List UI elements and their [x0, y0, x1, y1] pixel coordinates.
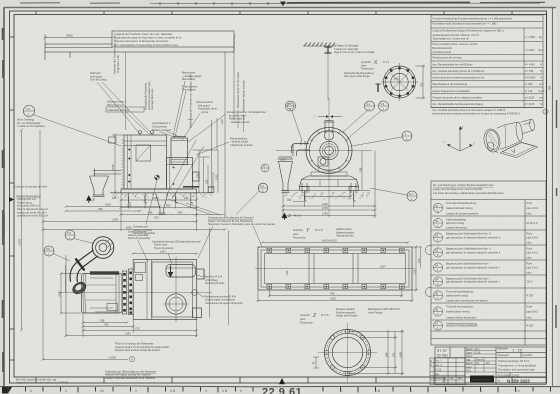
elbow bottom flange (dark) — [71, 280, 88, 296]
dims below frame — [257, 289, 414, 302]
bolt dots — [128, 149, 174, 185]
middle column small rows — [465, 351, 496, 373]
table text german/english/spanish rows — [433, 17, 512, 107]
discharge stub right — [193, 172, 200, 181]
small balloon 11 — [261, 164, 269, 172]
dims below plan view — [65, 255, 199, 337]
top margin ruler — [150, 2, 540, 4]
scan paper edge left — [3, 7, 5, 387]
small box on left wall — [109, 137, 117, 143]
dims below side view — [42, 193, 227, 360]
logo box — [470, 376, 494, 383]
revision strip left — [430, 358, 465, 385]
connection table mid right — [431, 181, 546, 345]
left feed pipe from casing — [292, 141, 310, 156]
balloon 5.1 left — [286, 101, 296, 111]
bold feed arrow — [169, 266, 173, 277]
flange bolt holes — [324, 329, 371, 376]
vertical leader from bar to hoist point — [125, 52, 127, 130]
balloon 5.4/2 right of side view — [258, 183, 268, 193]
balloons left of table — [425, 245, 431, 254]
long vertical leader x=225 — [224, 52, 226, 218]
shading on drum — [488, 132, 498, 146]
scan edge smudges left — [2, 28, 4, 372]
housing plan — [133, 260, 204, 320]
coordinate axes symbol — [447, 128, 473, 151]
bottom-left corner blob — [2, 387, 12, 394]
crane beam top bar — [45, 44, 234, 60]
flange bolts (dark) — [385, 67, 415, 98]
dims right of flange — [348, 330, 405, 376]
bottom scan edge line — [0, 385, 560, 388]
frame grid ticks bottom — [36, 377, 512, 383]
motor top right — [521, 119, 531, 122]
connection table rows with balloons 51-57 — [433, 203, 442, 212]
approx 6750 dim — [42, 358, 129, 360]
fins left — [121, 140, 124, 188]
TITLE BLOCK — [435, 347, 546, 385]
dim 1041 above housing — [132, 252, 198, 254]
skid base — [500, 143, 538, 158]
balloons top right pair — [365, 101, 375, 111]
bottom ruler ticks — [8, 387, 551, 393]
anchor bolts side view — [129, 193, 193, 204]
frame grid ticks left/right — [10, 37, 15, 360]
circled 1 right — [543, 109, 548, 114]
foundation data table top right — [431, 15, 543, 108]
I-beam for assembly — [325, 47, 332, 53]
top neck and bearing — [324, 121, 335, 141]
foundation hatch under front view — [281, 190, 370, 192]
flange view X — [381, 63, 418, 101]
Z arrow bottom — [282, 214, 286, 221]
leader diagonals — [166, 81, 229, 199]
note box on beam — [112, 31, 234, 47]
left vertical dims side view — [20, 129, 124, 332]
inlet pipe elbow (bold) — [70, 237, 114, 283]
small dim left — [313, 357, 319, 368]
dim above 8x150 — [261, 241, 410, 243]
right stubs — [197, 269, 204, 279]
rows below table bottom (2 extra) — [431, 107, 543, 109]
body cylinder — [497, 122, 519, 128]
concrete speckle band front view — [285, 192, 369, 200]
isometric sketch of centrifuge — [482, 119, 538, 158]
centerlines — [328, 98, 330, 217]
right dim line of flange — [416, 65, 426, 100]
baseplate — [121, 189, 197, 193]
date stamp bold bottom — [279, 378, 285, 384]
table value column — [525, 35, 545, 106]
left text block above plan view — [9, 197, 14, 202]
balloon right 5.4 — [407, 191, 417, 201]
pedestal — [300, 172, 359, 191]
anchor plates on frame — [267, 248, 404, 289]
centerline horizontal — [58, 292, 212, 294]
drum circle cross ticks — [164, 257, 189, 322]
scan paper edge top — [4, 7, 556, 9]
dims right of frame — [412, 246, 422, 292]
long vertical extension lines right of plan view — [209, 228, 211, 318]
section arrows f-t above — [318, 116, 341, 118]
dim right side 938 — [361, 151, 363, 191]
clamp symbol left of flange — [376, 84, 381, 92]
dims below front view — [282, 151, 377, 219]
coupling bolt bands — [122, 269, 133, 315]
concrete speckles side view — [113, 194, 212, 198]
funnel inlet hopper — [278, 157, 294, 192]
hoist eyebolts on machine top — [138, 131, 153, 135]
main casing circles — [306, 128, 352, 174]
dims above plan (1030/945) — [65, 205, 162, 212]
balloon 5.2 far left — [23, 105, 34, 116]
foundation line side view — [110, 192, 155, 194]
anchor bolts front view — [302, 183, 356, 202]
flange centerlines — [318, 352, 377, 354]
motor/screen block — [124, 135, 167, 189]
flange circles — [325, 330, 371, 376]
sight glass box — [318, 157, 328, 166]
left vertical dim plan — [60, 265, 82, 315]
motor plan — [82, 271, 123, 313]
discharge funnel below — [156, 193, 169, 215]
balloon right 1/1 — [402, 131, 412, 141]
right margin paper edge — [552, 8, 554, 387]
right vertical dims side view — [193, 118, 219, 193]
balloons top-left of plan — [65, 230, 75, 240]
drum front ellipse — [482, 128, 502, 154]
frame grid ticks top — [36, 11, 512, 15]
vertical leader from bar right end — [233, 38, 235, 121]
housing right block — [167, 158, 193, 190]
feed housing top — [166, 265, 196, 278]
SIDE ELEVATION (top-left machine) — [121, 135, 199, 193]
Y arrow — [87, 196, 91, 203]
foundation recess front view — [305, 191, 350, 200]
dim line 3400 / 2200 above bar — [44, 34, 236, 44]
centroid symbol — [155, 175, 160, 180]
ceiling hatch — [303, 43, 336, 47]
cover bolts ticks — [307, 129, 351, 173]
filter cylinder on top — [171, 138, 188, 165]
left discharge pipe and funnel (side view) — [90, 169, 122, 197]
frame rectangles — [255, 247, 415, 290]
